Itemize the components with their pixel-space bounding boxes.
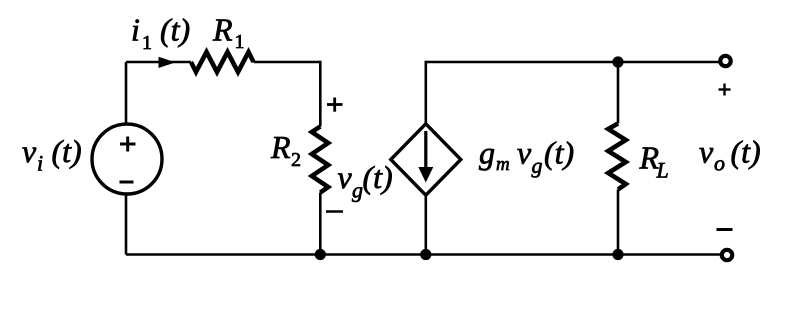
label i1(t) [131,12,190,55]
current arrow i1 [159,57,176,68]
bottom bus wire [126,253,721,256]
voltage source minus sign [120,181,134,184]
wire R1 to top-right corner [254,61,321,64]
svg-text:(t): (t) [363,159,393,195]
label R1 [212,12,245,54]
output terminal bottom [722,250,732,260]
svg-text:m: m [496,154,510,175]
label gm vg(t) [479,135,574,179]
wire dependent source bottom vertical [424,195,427,254]
svg-text:2: 2 [291,149,301,171]
plus sign at R2 top [327,98,343,112]
svg-text:L: L [656,158,669,183]
minus sign at R2 bottom [326,210,343,213]
wire RL top vertical [617,62,620,124]
svg-text:(t): (t) [731,134,761,170]
svg-text:v: v [338,159,353,195]
wire left vertical (top corner to source) [125,62,128,125]
svg-text:(t): (t) [160,12,190,48]
svg-text:g: g [352,178,363,203]
wire top-right horizontal (dep source to output terminal) [426,61,720,64]
svg-text:o: o [714,151,725,176]
svg-text:i: i [131,12,140,48]
svg-text:1: 1 [235,31,245,53]
label R2 [270,129,301,171]
svg-text:v: v [517,135,532,171]
junction dot node source-bottom [420,249,431,260]
wire source bottom vertical [125,193,128,255]
dependent current source U1 diamond [391,124,461,195]
resistor R2 zigzag [312,127,328,193]
svg-text:1: 1 [142,32,152,54]
svg-text:R: R [212,12,233,48]
svg-text:(t): (t) [544,135,574,171]
wire vertical down to R2 [319,61,322,127]
junction dot node RL-bottom [612,249,623,260]
wire RL bottom vertical [617,190,620,255]
svg-text:v: v [699,134,714,170]
junction dot node R2-bottom [315,249,326,260]
label vi(t) [22,133,82,176]
svg-text:g: g [532,153,543,178]
wire R2 bottom [319,193,322,255]
svg-text:(t): (t) [52,133,82,169]
resistor RL zigzag [608,124,626,190]
svg-text:v: v [22,133,37,169]
output terminal top [720,56,730,66]
dependent source arrow [418,131,433,183]
output minus sign [717,228,733,231]
resistor R1 zigzag [191,52,254,72]
svg-text:i: i [37,151,43,176]
voltage source plus sign [120,137,136,152]
wire dependent source top vertical [424,61,427,124]
voltage source V1 circle [92,124,162,194]
label vo(t) [699,134,761,176]
label RL [639,140,669,183]
output plus sign [719,84,731,96]
junction dot node RL-top [612,56,623,67]
label vg(t) [338,159,393,203]
wire top-left horizontal (source to R1) [126,61,191,64]
svg-text:R: R [270,129,291,165]
svg-text:g: g [479,135,495,171]
